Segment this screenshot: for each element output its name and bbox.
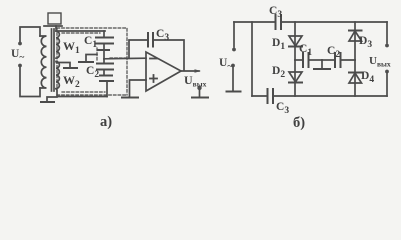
svg-text:U~: U~	[11, 48, 24, 63]
input port U~ (circuit b)	[219, 22, 241, 92]
wire W2 bottom to C2 lower electrode	[56, 89, 107, 97]
wire W1 top to C1	[56, 30, 105, 32]
svg-text:б): б)	[293, 115, 305, 131]
right rail and output U_vyh (circuit b)	[369, 22, 391, 96]
secondary winding W1	[56, 31, 80, 58]
svg-text:C1: C1	[299, 43, 312, 58]
transformer T1 primary winding	[40, 36, 47, 88]
coupling capacitor C3 bottom	[268, 89, 290, 116]
diode D3	[349, 22, 372, 60]
left rail	[251, 22, 253, 96]
shield ground	[79, 55, 97, 63]
middle wire (node row)	[295, 59, 355, 61]
bottom rail	[252, 95, 387, 97]
svg-text:D3: D3	[359, 35, 372, 50]
diode D1	[272, 22, 302, 60]
svg-text:Uвых: Uвых	[369, 55, 391, 69]
svg-text:Uвых: Uвых	[184, 73, 207, 89]
top rail	[234, 21, 387, 23]
feedback capacitor C3 with wires	[129, 28, 184, 71]
capacitor C1	[84, 31, 113, 59]
coupling capacitor C3 top	[269, 5, 282, 29]
op-amp U1	[146, 52, 181, 91]
svg-text:U~: U~	[219, 57, 232, 72]
ground (circuit b)	[314, 60, 330, 69]
secondary winding W2	[56, 62, 80, 91]
shield terminal square	[44, 13, 62, 29]
transformer shield ground	[41, 97, 57, 102]
shield box dashed outline	[57, 28, 127, 95]
capacitor C2	[86, 59, 113, 97]
diode D2	[272, 60, 302, 96]
svg-text:C2: C2	[86, 65, 99, 80]
secondary center tap ground	[57, 63, 78, 69]
output terminal U_vyh (circuit a)	[181, 69, 208, 97]
diode D4	[349, 60, 374, 96]
svg-text:D2: D2	[272, 65, 285, 80]
svg-text:D4: D4	[361, 70, 374, 85]
svg-text:D1: D1	[272, 37, 285, 52]
capacitor C2 (circuit b)	[327, 45, 341, 67]
svg-text:W2: W2	[63, 73, 80, 90]
svg-text:а): а)	[100, 114, 112, 130]
svg-text:C2: C2	[327, 45, 340, 60]
svg-text:W1: W1	[63, 39, 80, 56]
svg-text:C3: C3	[276, 101, 289, 116]
wire summing node to op-amp inverting input	[104, 57, 146, 60]
op-amp + input ground	[122, 80, 146, 98]
capacitor C1 (circuit b)	[299, 43, 312, 67]
transformer core	[52, 29, 55, 91]
input port U~ (circuit a)	[11, 27, 40, 97]
